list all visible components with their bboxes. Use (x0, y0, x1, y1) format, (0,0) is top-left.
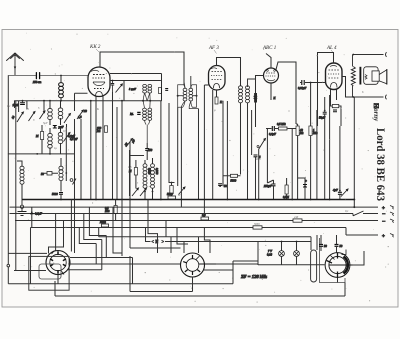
pot wiper dot (257, 146, 259, 148)
wire (331, 104, 342, 126)
wire (67, 93, 88, 199)
ground bus thick (22, 199, 354, 201)
tube ABC1 envelope (264, 68, 279, 83)
capacitor (111, 84, 114, 86)
wire (178, 107, 182, 208)
node (324, 110, 326, 112)
svg-text:ABC 1: ABC 1 (262, 46, 276, 51)
node (310, 82, 312, 84)
resistor 0.5M (279, 127, 288, 130)
capacitor 50uF + (304, 185, 306, 187)
rail -B y=220.5 (15, 220, 378, 222)
wire ABC1 top (266, 54, 271, 69)
trimmer T6 (64, 133, 71, 142)
box socket3 (320, 238, 346, 283)
wire (311, 110, 317, 200)
svg-text:0,1µF: 0,1µF (269, 133, 276, 136)
svg-text:5µF: 5µF (43, 122, 48, 125)
capacitor (323, 112, 327, 114)
rail +A y=207 (10, 206, 379, 208)
wire (345, 251, 364, 296)
node (219, 185, 221, 187)
wire AL4 grid row (300, 82, 326, 84)
wire socket1 right (58, 207, 181, 284)
tube ABC1 (264, 68, 279, 83)
coil IF1b (148, 84, 152, 93)
svg-text:0,01µF: 0,01µF (298, 87, 307, 90)
svg-text:Horny: Horny (372, 102, 379, 122)
core TR (359, 67, 361, 85)
svg-text:250 cm: 250 cm (33, 81, 41, 84)
capacitor IF1 lower (137, 112, 140, 114)
ABC1 internals (266, 72, 276, 74)
wire series RC row (266, 128, 296, 130)
wire (223, 176, 241, 186)
coil Losc2 (151, 164, 155, 189)
wire osc box (130, 150, 145, 196)
svg-text:Lord 38 BE 643: Lord 38 BE 643 (374, 128, 386, 201)
wire L5 brackets (178, 85, 197, 107)
capacitor mid (53, 126, 57, 129)
wire (286, 178, 288, 200)
wire socket2 top bundle (148, 200, 210, 254)
wire (291, 129, 293, 200)
coil L4 (58, 132, 63, 143)
speaker (364, 67, 387, 108)
coil Losc1 (143, 164, 147, 189)
tube AL4 (326, 63, 343, 90)
svg-text:5000: 5000 (231, 180, 237, 183)
wire L5 drops (181, 101, 198, 109)
node (36, 153, 38, 155)
terminal speaker top (386, 52, 387, 57)
node (121, 100, 123, 102)
node (353, 206, 355, 208)
wire (60, 194, 62, 199)
tube socket S2 (181, 253, 217, 277)
capacitor 0.1 (272, 126, 274, 131)
wire (339, 126, 341, 200)
coil IF1a (143, 84, 147, 93)
tube AF3 (209, 66, 226, 91)
wire bottom long 2 (55, 281, 345, 296)
coil L-ant (59, 83, 64, 98)
pot mains adj (341, 189, 348, 197)
wire (60, 98, 62, 101)
wire AF3 cathode (213, 90, 217, 110)
capacitor IF1 trim (165, 89, 168, 91)
wire bus y=153.9 (8, 153, 75, 155)
node mid filter (54, 126, 56, 128)
wire (233, 261, 258, 284)
wire (248, 79, 256, 127)
capacitor 5000 coupling (231, 174, 238, 177)
svg-text:0,310: 0,310 (148, 168, 151, 175)
node (95, 199, 97, 201)
scan speckle (13, 33, 389, 303)
tube AL4 envelope (326, 63, 343, 90)
node (310, 199, 312, 201)
svg-text:5000: 5000 (255, 158, 261, 161)
IF transformer 1 (129, 84, 162, 143)
label N (152, 240, 165, 242)
trimmer T2 (29, 112, 36, 122)
wire (81, 101, 91, 200)
capacitor 5000 (59, 193, 63, 195)
node (60, 199, 62, 201)
coil L6 (189, 88, 193, 101)
trimmer T9 (140, 188, 147, 196)
capacitor 50 agc (218, 184, 222, 186)
tube socket S1 (46, 251, 70, 275)
wire (169, 183, 175, 200)
capacitor IF2 (254, 96, 258, 98)
brand text (372, 102, 386, 201)
node (160, 199, 162, 201)
svg-text:NL: NL (129, 113, 134, 116)
svg-text:1,5: 1,5 (128, 166, 132, 169)
wire IF1 lower leads (143, 101, 150, 108)
wire (26, 101, 28, 109)
resistor 0.3 row (201, 217, 209, 220)
resistor 5000 on rail (253, 226, 262, 229)
resistor R2 (170, 186, 173, 194)
speaker body (364, 67, 378, 85)
wire ABC1 grid left (256, 76, 264, 128)
wire (65, 127, 67, 181)
node (60, 100, 62, 102)
coil L5 (183, 88, 187, 101)
svg-text:1µ: 1µ (54, 147, 57, 150)
tube socket S3 rectifier (325, 250, 352, 283)
wire heater B with N plug (146, 228, 312, 242)
svg-text:0,5 MΩ: 0,5 MΩ (277, 123, 286, 126)
wire ABC1 cathode (270, 83, 272, 100)
wire power frame (311, 235, 317, 250)
antenna arrowhead (14, 67, 16, 70)
wire (353, 97, 355, 200)
wire bottom long 3 (130, 256, 193, 292)
resistor 1M (309, 126, 312, 136)
wire (146, 143, 148, 160)
wire (223, 101, 227, 200)
IF transformer 2 (239, 79, 258, 127)
resistor barretter (311, 250, 317, 282)
node (152, 191, 154, 193)
wire bottom long 1 (8, 283, 233, 285)
node (258, 199, 260, 201)
capacitor 250 (145, 149, 149, 151)
terminal (7, 264, 10, 267)
coil IF1c lower (143, 108, 147, 120)
trimmer T5 (77, 110, 84, 119)
node (291, 199, 293, 201)
rail -A y=213.5 with switch (10, 213, 379, 215)
node (31, 211, 33, 213)
node (352, 96, 354, 98)
wire left drop 2 (15, 101, 17, 271)
coil TR primary (351, 67, 355, 87)
wire (130, 101, 169, 200)
wire (112, 81, 114, 93)
rail segment y=227.5 (31, 227, 347, 229)
svg-text:5000: 5000 (52, 193, 58, 196)
shield box S1 (29, 256, 69, 290)
wire (321, 235, 337, 253)
tube AF3 envelope (209, 66, 226, 91)
trimmer T8 (132, 188, 139, 196)
node (22, 100, 24, 102)
svg-text:K: K (273, 97, 276, 100)
svg-text:ZF = 128 kHz: ZF = 128 kHz (241, 274, 267, 279)
wire socket2 sides (130, 200, 258, 292)
coil IF2b (246, 86, 250, 103)
svg-text:0,1µF: 0,1µF (35, 213, 42, 216)
wire (266, 129, 268, 184)
node (196, 95, 198, 97)
wire AF3 anode to IF2 (217, 58, 241, 86)
wire AF3 grid (204, 84, 208, 86)
antenna (7, 53, 24, 76)
coil L2 (58, 108, 63, 119)
svg-text:3 µµF: 3 µµF (129, 88, 136, 91)
wire (267, 180, 273, 200)
wire (256, 150, 259, 200)
lamp LP2 (294, 251, 300, 257)
capacitor 30 (319, 245, 323, 247)
wire ABC1 diode plate (276, 62, 296, 124)
resistor 40k (296, 126, 299, 136)
wire (116, 107, 118, 200)
rail +B y=235 (346, 228, 378, 236)
node (329, 199, 331, 201)
resistor 5000 on bus (168, 196, 176, 199)
wire socket1 left (8, 253, 47, 270)
wire heater A (99, 228, 311, 237)
wire (145, 120, 150, 143)
wire KK2 grid side (110, 74, 162, 81)
wire (199, 85, 213, 221)
resistor AL4 cath (332, 105, 339, 108)
resistor 240 on rail (293, 219, 302, 222)
KK2 internals (93, 74, 105, 76)
svg-text:0,1: 0,1 (7, 105, 11, 108)
capacitor 0.01 (302, 80, 304, 85)
wire grid bus y=100.7 (15, 100, 162, 102)
wire (241, 103, 252, 200)
wire (49, 101, 51, 125)
wire (31, 207, 33, 227)
tube KK2 envelope (88, 67, 110, 97)
wire (353, 200, 355, 208)
wire (115, 200, 117, 221)
wire lamps (258, 242, 325, 265)
mains symbol (374, 104, 379, 109)
capacitor 250uF cath (272, 184, 276, 186)
wire IF1 leads (143, 93, 150, 101)
wire (41, 125, 43, 154)
wire antenna bus y=75.5 (8, 75, 88, 77)
lamp LP1 (279, 251, 285, 257)
svg-text:0,14: 0,14 (267, 254, 272, 257)
node (171, 182, 173, 184)
resistor K AF3 (215, 97, 218, 104)
node (43, 100, 45, 102)
wire KK2 label leader (96, 49, 99, 52)
capacitor 10cm (21, 103, 25, 105)
wire socket1 top bundle (49, 200, 107, 254)
wire (15, 101, 19, 112)
coil box S1 (39, 264, 61, 279)
node (112, 80, 114, 82)
speaker magnet pot (372, 71, 379, 81)
svg-text:250µF: 250µF (264, 185, 272, 188)
tube KK2 (88, 67, 110, 97)
wire verticals from KK2 down (96, 110, 103, 200)
switch contact (70, 179, 73, 182)
capacitor C-ant 250cm (36, 73, 39, 79)
wire (17, 161, 22, 200)
wire AL4 anode to transformer (342, 77, 353, 98)
svg-text:0,1: 0,1 (345, 210, 349, 213)
wire (135, 160, 137, 189)
AL4 internals (329, 69, 340, 71)
node (65, 172, 67, 174)
oscillator coupling coils right of KK2 (165, 76, 198, 109)
wire KK2 anode to IF1 (100, 52, 184, 85)
wire AL4 top cap (318, 53, 334, 127)
trimmer T3 (40, 111, 46, 119)
wire (310, 83, 312, 127)
node (281, 241, 283, 243)
volume pot arrow (259, 139, 266, 150)
resistor 0.3M (285, 185, 288, 194)
resistor 0.5M vert (114, 206, 117, 214)
wire (60, 158, 62, 192)
resistor R1 (41, 132, 44, 140)
capacitor 50 (47, 172, 52, 176)
coil IF1d lower (148, 108, 152, 120)
resistor R100k (104, 126, 107, 133)
wire (49, 128, 51, 154)
node (49, 100, 51, 102)
svg-text:5000: 5000 (254, 223, 260, 226)
svg-text:0,5 µF: 0,5 µF (70, 138, 78, 141)
coil L8 (59, 166, 63, 180)
wire (145, 158, 153, 192)
wire (145, 192, 153, 200)
trimmer T4 (64, 114, 71, 124)
svg-text:2MΩ: 2MΩ (100, 221, 106, 224)
wire KK2 pins down (96, 97, 103, 121)
svg-text:K: K (96, 108, 99, 111)
node (149, 100, 151, 102)
wire AL4 cathode pins (331, 90, 337, 105)
svg-text:0,5: 0,5 (63, 130, 67, 133)
output transformer TR (351, 52, 386, 99)
wire (178, 76, 197, 96)
wire (60, 101, 62, 125)
terminal speaker bottom (386, 95, 387, 100)
node (49, 153, 51, 155)
coil L1 (48, 108, 53, 119)
coil IF2a (239, 86, 243, 103)
node (177, 95, 179, 97)
node (227, 199, 229, 201)
node (296, 241, 298, 243)
switch (353, 211, 364, 216)
node (90, 100, 92, 102)
wire TR top (353, 55, 384, 67)
svg-text:4µF: 4µF (333, 189, 338, 192)
trimmer T10 (179, 187, 186, 195)
speaker voice coil (365, 75, 367, 80)
svg-text:µµF: µµF (59, 126, 64, 129)
svg-text:+: + (382, 235, 385, 240)
node (144, 191, 146, 193)
wire (325, 95, 330, 200)
wire left drop 1 (7, 76, 9, 284)
wire (296, 124, 298, 200)
svg-text:KK 2: KK 2 (89, 45, 101, 50)
wire (22, 101, 24, 103)
svg-text:5000: 5000 (167, 193, 173, 196)
wire (257, 242, 259, 266)
wire (43, 101, 45, 111)
resistor R osc (134, 168, 137, 176)
wire (298, 178, 305, 200)
wire IF1 box (124, 74, 162, 101)
wire AL4 label leader (331, 50, 334, 53)
trimmer arrow (116, 84, 123, 93)
coil L3 (48, 133, 53, 148)
wire (60, 128, 62, 154)
misc value labels (7, 91, 364, 213)
trimmer T7 padder (126, 139, 133, 148)
node (353, 199, 355, 201)
resistor 2M horiz (102, 224, 109, 227)
capacitor 0.1uF (30, 213, 34, 215)
svg-text:250: 250 (148, 149, 153, 152)
grid components near KK2 (111, 80, 137, 93)
wire (31, 200, 123, 284)
svg-text:–: – (382, 212, 386, 217)
ground symbol (20, 205, 23, 208)
node (129, 199, 131, 201)
coil L7 osc left (20, 166, 24, 184)
capacitor IF1 (159, 88, 162, 94)
node (352, 54, 354, 56)
AF3 internals (212, 71, 223, 73)
wire (113, 92, 123, 200)
svg-text:AF 3: AF 3 (208, 46, 219, 51)
wire TR bottom (353, 86, 384, 97)
svg-text:K: K (219, 101, 222, 104)
capacitor 4uF (339, 190, 341, 192)
capacitor AL4 cath (333, 110, 337, 112)
resistor det load (254, 93, 257, 103)
svg-text:240: 240 (294, 216, 299, 219)
svg-text:0,3: 0,3 (202, 214, 206, 217)
capacitor detector (254, 155, 258, 157)
wire (44, 172, 58, 174)
svg-text:1,5: 1,5 (78, 116, 82, 119)
svg-text:0,300: 0,300 (155, 168, 158, 175)
wire (60, 76, 62, 83)
node (142, 100, 144, 102)
trimmer T1 (17, 112, 24, 122)
svg-text:–: – (382, 220, 386, 225)
